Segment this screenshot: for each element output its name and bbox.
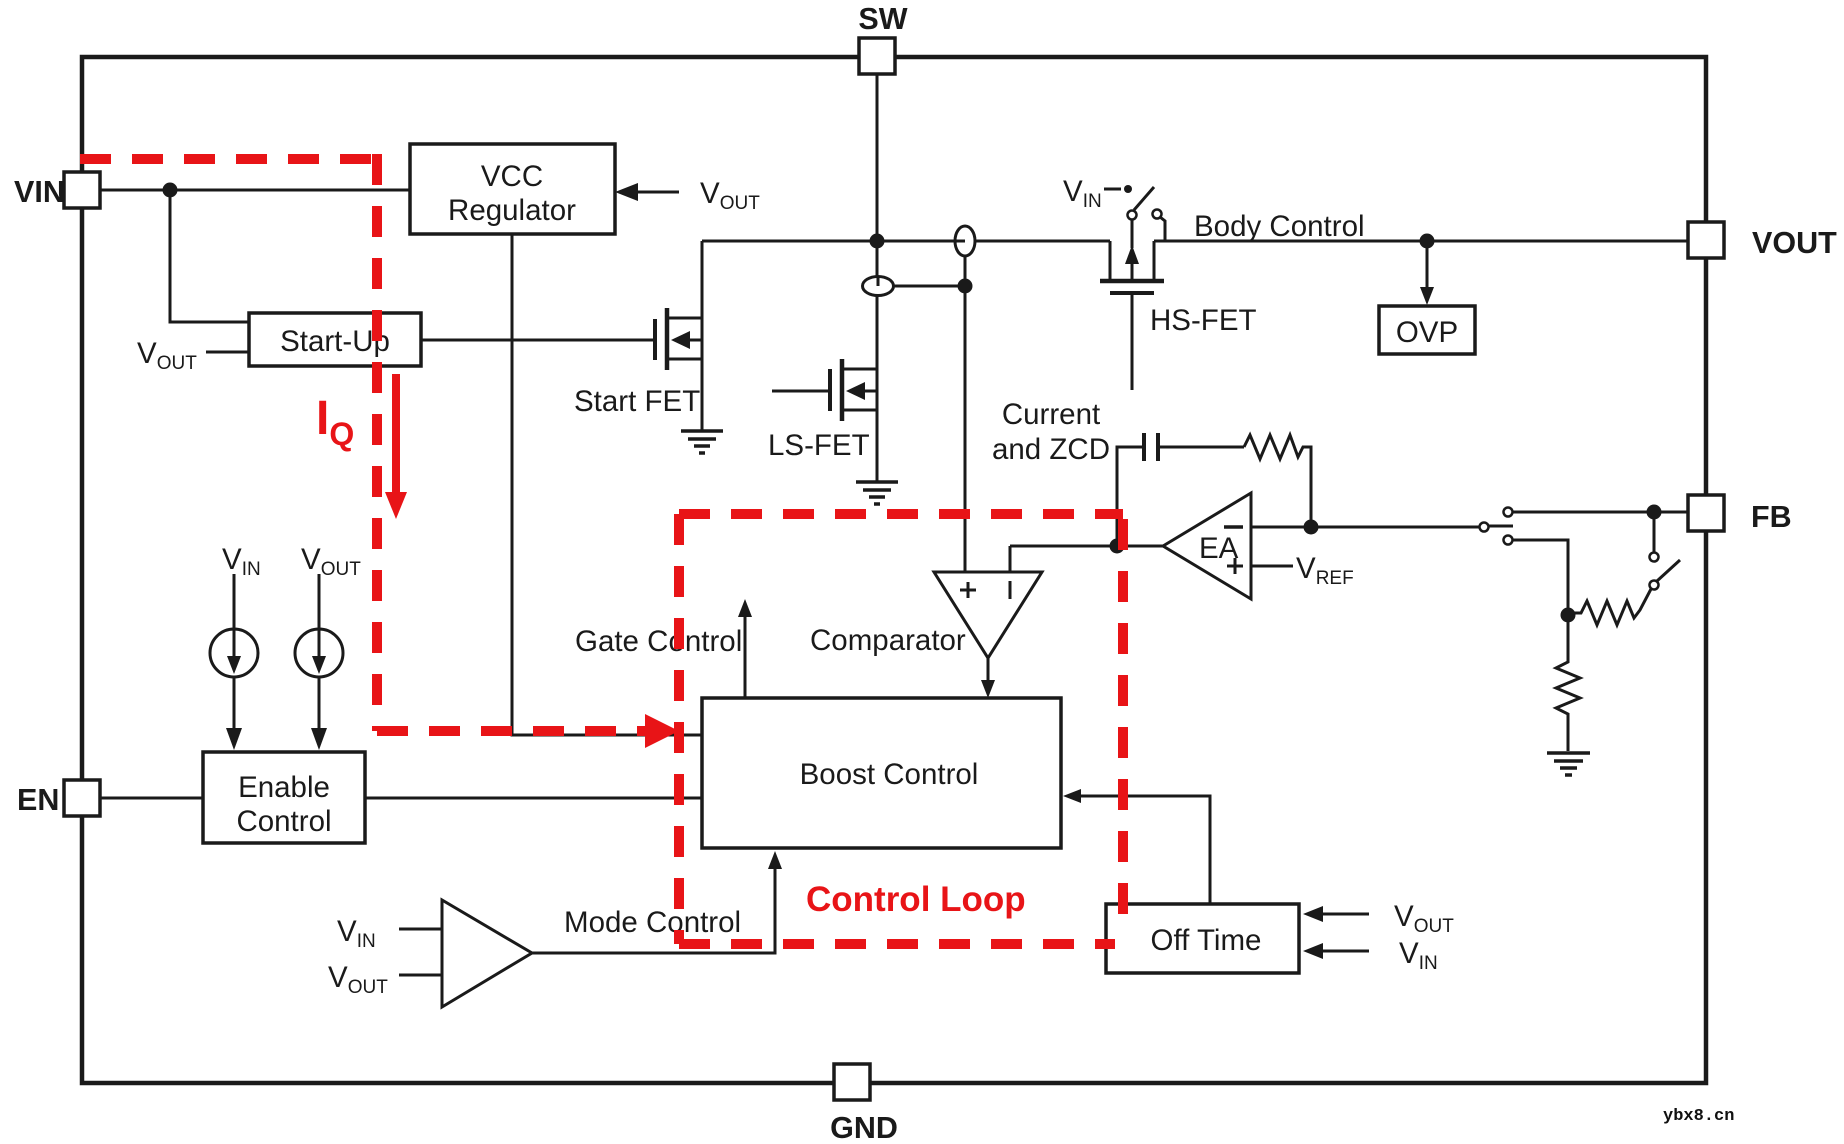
- node FB junction: [1647, 505, 1662, 520]
- resistor R compensation: [1244, 435, 1311, 527]
- pin FB: [1688, 495, 1792, 534]
- wire Start FET drain up to rail: [701, 241, 704, 321]
- svg-text:Gate Control: Gate Control: [575, 625, 742, 658]
- wire EA output to comparator minus: [1010, 545, 1163, 548]
- pin VOUT: [1688, 222, 1837, 260]
- node SW rail junction: [870, 234, 885, 249]
- svg-text:Off Time: Off Time: [1151, 924, 1262, 957]
- wire Body Control rail to VOUT pin: [1154, 240, 1688, 243]
- svg-text:LS-FET: LS-FET: [768, 429, 870, 462]
- svg-text:Start FET: Start FET: [574, 385, 700, 418]
- label Current and ZCD: [992, 398, 1110, 466]
- switch FB select pole: [1480, 523, 1514, 532]
- svg-text:Boost Control: Boost Control: [800, 758, 979, 791]
- resistor R-lower divider: [1556, 615, 1580, 751]
- transistor Start FET: [574, 308, 702, 418]
- pin SW: [858, 2, 907, 74]
- wire EA output branch up to compensation: [1117, 447, 1142, 546]
- wire Off Time to Boost Control arrow: [1063, 789, 1210, 904]
- ground at Start FET: [681, 431, 723, 453]
- svg-text:VOUT: VOUT: [1752, 226, 1837, 260]
- comparator U-comp: [810, 572, 1042, 658]
- block VCC Regulator: [410, 144, 615, 234]
- wire Mode Control into Boost Control: [532, 851, 782, 953]
- wire LS-FET drain to sense ellipse: [876, 241, 879, 277]
- wire Control Loop red dashed box: [679, 514, 1123, 944]
- wire comparator minus input: [1009, 546, 1012, 572]
- switch VIN body-control: [1063, 175, 1165, 241]
- node EA output junction: [1110, 539, 1125, 554]
- transistor LS-FET: [768, 359, 877, 462]
- svg-text:and ZCD: and ZCD: [992, 433, 1110, 466]
- node compensation to minus input: [1304, 520, 1319, 535]
- svg-text:HS-FET: HS-FET: [1150, 304, 1257, 337]
- switch FB-short arm: [1650, 512, 1681, 581]
- capacitor C compensation: [1144, 433, 1244, 461]
- svg-text:OVP: OVP: [1396, 316, 1458, 349]
- wire VIN arrow into Off Time: [1303, 937, 1438, 974]
- wire SW pin stem: [876, 74, 879, 241]
- block OVP: [1379, 306, 1475, 354]
- node OVP junction: [1420, 234, 1435, 249]
- resistor R-upper divider: [1568, 581, 1659, 626]
- node sense tap junction: [958, 279, 973, 294]
- svg-text:Regulator: Regulator: [448, 194, 576, 227]
- block Boost Control: [702, 698, 1061, 848]
- svg-text:ybx8.cn: ybx8.cn: [1663, 1107, 1734, 1126]
- wire comparator output arrow into Boost Control: [981, 658, 995, 698]
- wire arrow down to OVP: [1420, 241, 1434, 305]
- ground at LS-FET: [856, 482, 898, 504]
- svg-text:VCC: VCC: [481, 160, 543, 193]
- svg-text:Body Control: Body Control: [1194, 210, 1365, 243]
- IC boundary: [82, 57, 1706, 1083]
- op-amp EA: [1163, 493, 1251, 599]
- wire VOUT arrow into VCC Regulator: [615, 177, 760, 214]
- current sense ellipse on LS-FET leg: [863, 277, 894, 296]
- wire Start FET source to ground: [701, 359, 704, 430]
- wire VIN to VCC Regulator: [100, 189, 410, 192]
- svg-text:VIN: VIN: [14, 175, 65, 209]
- wire SW horizontal rail: [702, 240, 1110, 243]
- block Off Time: [1106, 904, 1299, 973]
- svg-text:Current: Current: [1002, 398, 1100, 431]
- svg-text:Control: Control: [236, 805, 331, 838]
- node VIN junction: [163, 183, 178, 198]
- wire comparator plus input column: [964, 286, 967, 572]
- op-amp mode comparator: [328, 900, 532, 1007]
- wire sense ellipse down to junction: [964, 256, 967, 286]
- wire EN pin to Enable Control: [100, 797, 203, 800]
- current source VOUT: [295, 543, 361, 750]
- wire EA minus input to FB switch: [1251, 526, 1479, 529]
- wire IQ solid red arrow: [385, 374, 407, 519]
- wire Gate Control arrow: [575, 599, 752, 698]
- svg-text:FB: FB: [1751, 500, 1792, 534]
- svg-text:Enable: Enable: [238, 771, 330, 804]
- current sense ellipse on SW rail: [955, 226, 975, 256]
- wire IQ red dashed path: [80, 154, 648, 731]
- transistor HS-FET: [1100, 219, 1257, 390]
- svg-text:GND: GND: [830, 1111, 898, 1144]
- wire VOUT stub into Start-Up: [206, 351, 249, 354]
- current source VIN: [210, 543, 261, 750]
- block Enable Control: [203, 752, 365, 843]
- wire sense ellipse to LS-FET: [876, 295, 879, 369]
- pin GND: [830, 1064, 898, 1144]
- wire VCC Regulator down to Boost Control: [512, 234, 702, 735]
- svg-text:EA: EA: [1199, 532, 1239, 565]
- ground at FB divider: [1547, 753, 1590, 775]
- wire Enable Control to Boost Control: [365, 797, 702, 800]
- pin EN: [17, 780, 100, 817]
- block Start-Up: [249, 313, 421, 366]
- svg-text:EN: EN: [17, 783, 59, 817]
- svg-text:Control Loop: Control Loop: [806, 880, 1026, 919]
- wire sense tap to comparator column: [893, 285, 965, 288]
- wire EA plus input: [1251, 565, 1293, 568]
- wire LS-FET source to ground: [876, 410, 879, 481]
- svg-text:Comparator: Comparator: [810, 624, 966, 657]
- pin VIN: [14, 172, 100, 209]
- wire VOUT arrow into Off Time: [1303, 900, 1454, 937]
- switch FB throw lower: [1504, 536, 1569, 609]
- wire VIN junction to Start-Up: [170, 190, 249, 322]
- svg-text:Mode Control: Mode Control: [564, 906, 741, 939]
- wire IQ red arrowhead: [645, 714, 679, 748]
- node divider junction: [1561, 608, 1576, 623]
- svg-text:SW: SW: [858, 2, 907, 36]
- wire Start-Up output to Start FET gate: [421, 339, 654, 342]
- switch FB throw upper: [1504, 508, 1689, 517]
